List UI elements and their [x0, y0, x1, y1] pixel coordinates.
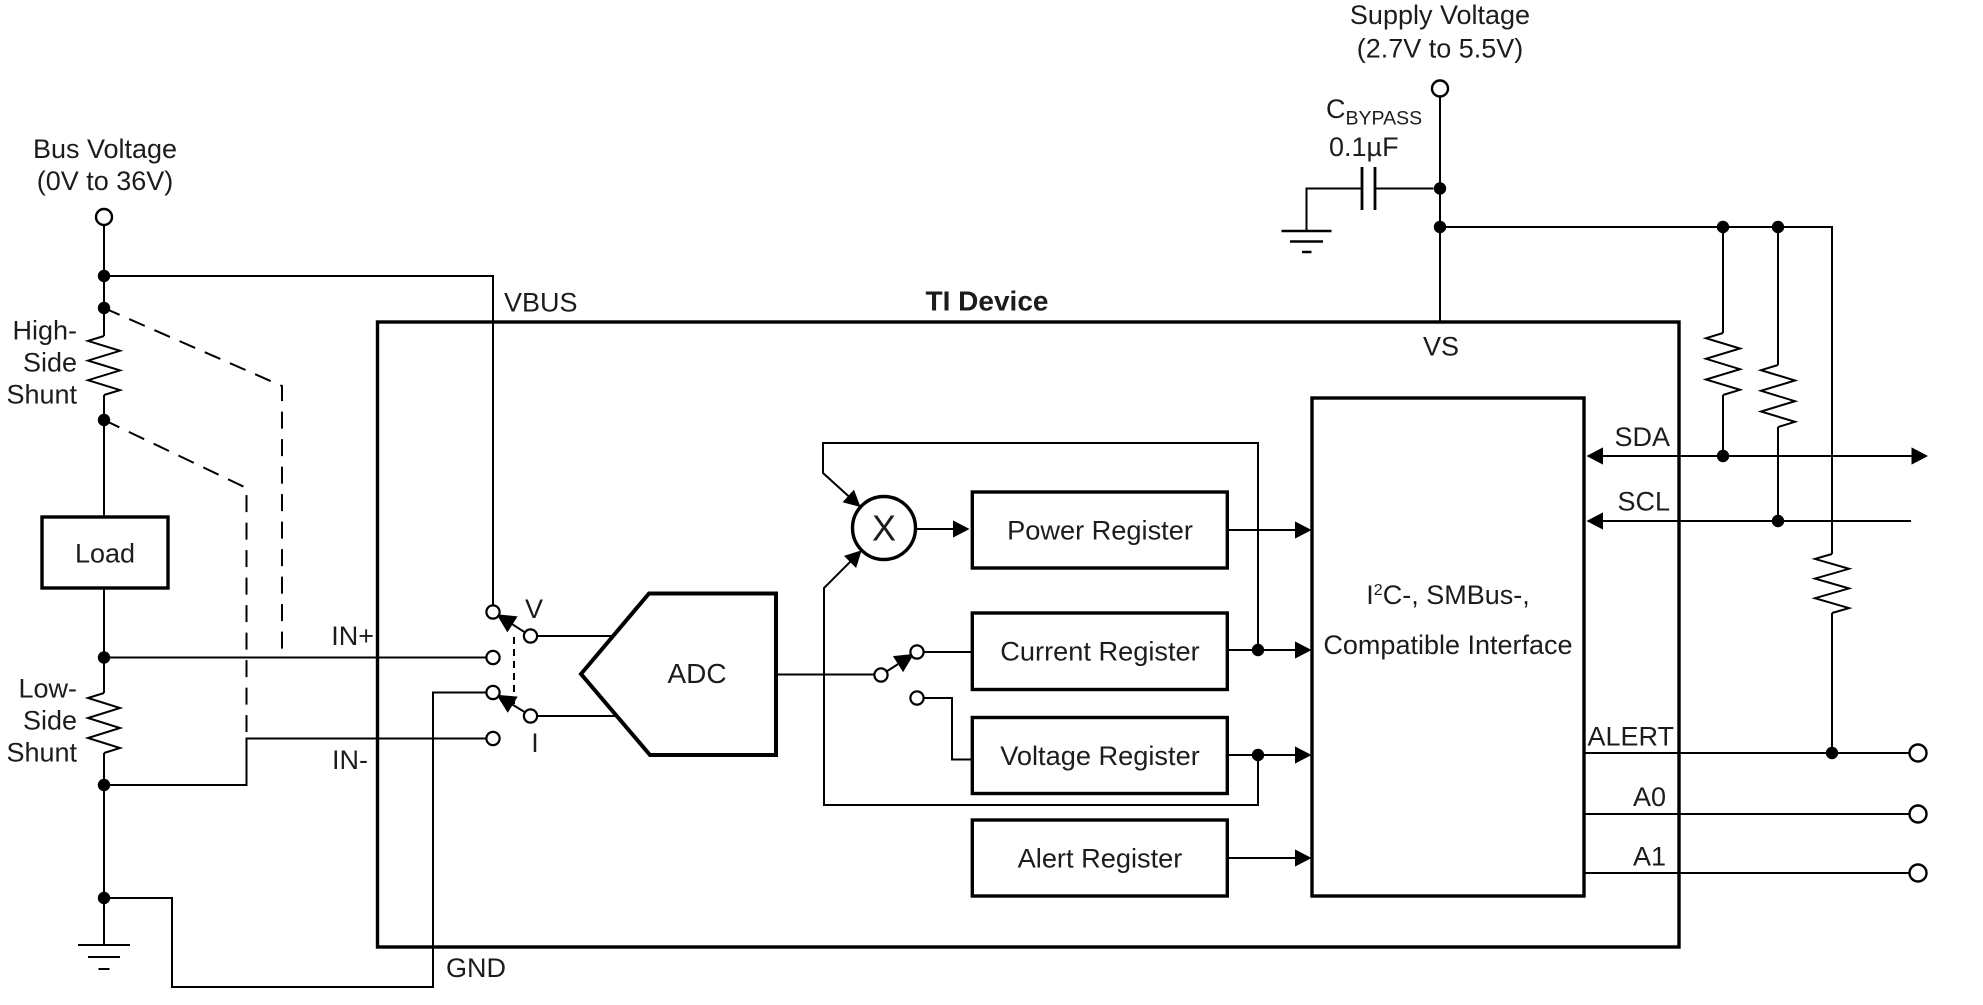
resistor Low-Side Shunt [88, 693, 120, 753]
node junction SDA [1717, 450, 1729, 462]
dashed wire high-side- to IN- [104, 420, 247, 732]
wire SCL pullup bottom [1777, 427, 1779, 521]
register Alert [972, 820, 1227, 896]
svg-text:Voltage Register: Voltage Register [1000, 740, 1200, 771]
wire switch pole V to ADC [537, 635, 614, 637]
register Current [972, 613, 1227, 690]
wire ADC output [776, 674, 875, 676]
svg-text:Alert Register: Alert Register [1018, 842, 1183, 873]
register Voltage [972, 718, 1227, 794]
switch V/I selector wiper top [512, 624, 526, 633]
capacitor C_BYPASS [1362, 167, 1375, 210]
svg-text:High-: High- [12, 316, 77, 346]
svg-text:VBUS: VBUS [504, 288, 578, 318]
wire IN- [104, 739, 487, 786]
switch pole top [524, 629, 537, 642]
switch pole bottom [524, 709, 537, 722]
svg-text:Low-: Low- [18, 674, 77, 704]
terminal Bus Voltage [96, 209, 112, 225]
svg-text:Compatible Interface: Compatible Interface [1323, 630, 1572, 660]
svg-text:Current Register: Current Register [1000, 635, 1199, 666]
node junction rail SDA pullup [1717, 221, 1729, 233]
wire feedback current to multiplier [823, 443, 1258, 650]
wire switch pole I to ADC [537, 715, 617, 717]
svg-text:I2C-, SMBus-,: I2C-, SMBus-, [1366, 580, 1529, 610]
wire A0 [1584, 813, 1910, 815]
resistor High-Side Shunt [88, 336, 120, 395]
svg-text:(0V to 36V): (0V to 36V) [37, 166, 174, 196]
ground symbol bypass [1282, 231, 1332, 252]
wire current register to interface [1227, 649, 1296, 651]
wire low-side shunt to ground [103, 753, 105, 945]
node junction low-side bottom [98, 779, 110, 791]
wire ALERT [1584, 752, 1910, 754]
wire ALERT pullup bottom [1831, 613, 1833, 753]
node junction high-side bottom [98, 414, 110, 426]
wire SCL pullup top [1777, 227, 1779, 365]
svg-text:A1: A1 [1633, 842, 1666, 872]
wire voltage register to interface [1227, 754, 1296, 756]
wire cap left plate to ground [1307, 189, 1363, 232]
register Power [972, 492, 1227, 568]
svg-text:I: I [531, 728, 539, 758]
node junction bus/VBUS [98, 270, 110, 282]
resistor SDA pullup [1706, 333, 1740, 395]
svg-text:VS: VS [1423, 332, 1459, 362]
wire SDA pullup top [1722, 227, 1724, 333]
wire alert register to interface [1227, 857, 1296, 859]
svg-text:Supply Voltage: Supply Voltage [1350, 0, 1530, 30]
svg-text:Shunt: Shunt [6, 380, 77, 410]
wire supply rail [1440, 227, 1832, 554]
node junction IN+ [98, 651, 110, 663]
svg-text:A0: A0 [1633, 782, 1666, 812]
svg-text:GND: GND [446, 953, 506, 983]
wire load to low-side shunt [103, 588, 105, 693]
wire VS supply [1439, 97, 1441, 323]
terminal ALERT [1910, 745, 1927, 762]
svg-text:Bus Voltage: Bus Voltage [33, 134, 177, 164]
svg-text:Side: Side [23, 348, 77, 378]
wire feedback voltage to multiplier [824, 559, 1258, 805]
switch register selector wiper [887, 664, 899, 671]
wire to current register [924, 651, 972, 653]
wire IN+ [104, 657, 487, 659]
interface I2C SMBus box [1312, 398, 1584, 896]
svg-text:Side: Side [23, 706, 77, 736]
svg-text:TI Device: TI Device [926, 286, 1049, 317]
svg-text:(2.7V to 5.5V): (2.7V to 5.5V) [1357, 34, 1524, 64]
wire SDA pullup bottom [1722, 395, 1724, 456]
svg-text:Shunt: Shunt [6, 738, 77, 768]
terminal Supply Voltage [1432, 81, 1448, 97]
wire high-side shunt to load [103, 395, 105, 517]
node junction high-side top [98, 302, 110, 314]
svg-text:CBYPASS: CBYPASS [1326, 94, 1422, 130]
wire VBUS to device [104, 276, 493, 606]
wire bus rail top [103, 225, 105, 336]
switch contact voltage [910, 691, 923, 704]
svg-text:SDA: SDA [1614, 422, 1670, 452]
dashed wire high-side+ to IN+ [104, 308, 282, 657]
svg-text:SCL: SCL [1617, 487, 1670, 517]
wire power register to interface [1227, 529, 1296, 531]
wire GND return [104, 693, 487, 988]
node junction rail SCL pullup [1772, 221, 1784, 233]
node junction SCL [1772, 515, 1784, 527]
wire to voltage register [924, 698, 972, 760]
node junction voltage feedback [1252, 749, 1264, 761]
node junction current feedback [1252, 644, 1264, 656]
wire A1 [1584, 872, 1910, 874]
dashed gang link [513, 637, 515, 706]
ground symbol left [78, 945, 130, 969]
wire multiplier to power register [916, 528, 954, 530]
svg-text:IN+: IN+ [331, 621, 374, 651]
node junction ground [98, 892, 110, 904]
wire SDA [1602, 455, 1912, 457]
switch pole ADC output [874, 668, 887, 681]
svg-text:Power Register: Power Register [1007, 514, 1193, 545]
wire SCL [1602, 520, 1911, 522]
terminal A0 [1910, 806, 1927, 823]
wire cap right plate [1375, 188, 1434, 190]
switch contact V (VBUS) [486, 605, 499, 618]
switch V/I selector wiper bottom [512, 704, 526, 713]
svg-text:0.1µF: 0.1µF [1329, 132, 1399, 162]
node junction ALERT [1826, 747, 1838, 759]
svg-text:Load: Load [75, 539, 135, 569]
switch contact IN- [486, 732, 499, 745]
terminal A1 [1910, 865, 1927, 882]
svg-text:V: V [525, 594, 543, 624]
svg-text:X: X [872, 508, 896, 549]
svg-text:IN-: IN- [332, 745, 368, 775]
svg-text:ADC: ADC [667, 658, 726, 689]
resistor SCL pullup [1761, 365, 1795, 427]
switch contact IN+ [486, 651, 499, 664]
node junction cap [1434, 182, 1446, 194]
load box [42, 517, 168, 588]
resistor ALERT pullup [1815, 554, 1849, 613]
TI Device box [378, 322, 1680, 947]
multiplier X [853, 497, 916, 560]
switch contact GND side [486, 686, 499, 699]
switch contact current [910, 645, 923, 658]
op-amp ADC [581, 594, 776, 756]
svg-text:ALERT: ALERT [1587, 722, 1674, 752]
node junction supply rail [1434, 221, 1446, 233]
